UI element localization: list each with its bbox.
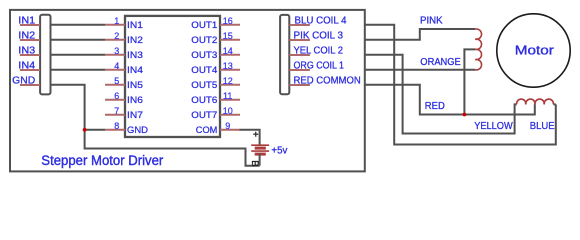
svg-text:16: 16: [223, 16, 233, 26]
IC U1 box: [125, 16, 220, 137]
battery B plates: [251, 145, 269, 154]
svg-text:14: 14: [223, 46, 233, 56]
wire IN1 connector to U1 pin1: [51, 24, 106, 26]
svg-text:OUT2: OUT2: [191, 34, 217, 45]
U1 right pins 16-9: [191, 16, 240, 135]
svg-text:OUT1: OUT1: [191, 19, 217, 30]
module box Stepper Motor Driver: [10, 10, 365, 172]
wire GND connector down to junction: [51, 85, 85, 130]
pin 1: [105, 24, 125, 26]
svg-text:13: 13: [223, 61, 233, 71]
svg-text:YELLOW: YELLOW: [474, 121, 513, 132]
svg-text:GND: GND: [127, 124, 148, 135]
pin 8: [105, 129, 125, 131]
wire IN2 connector to U1 pin2: [51, 39, 106, 41]
battery B plus sign: [253, 132, 258, 137]
svg-text:Motor: Motor: [515, 43, 555, 58]
svg-text:8: 8: [114, 121, 119, 131]
motor M1 circle: [497, 14, 570, 87]
svg-text:2: 2: [114, 31, 119, 41]
pin 2: [105, 39, 125, 41]
wire ORG to motor coil: [365, 69, 476, 71]
wire stub GND: [20, 84, 40, 86]
svg-text:ORANGE: ORANGE: [420, 57, 461, 68]
wire stub IN1: [20, 24, 40, 26]
svg-text:15: 15: [223, 31, 233, 41]
pin 14: [220, 54, 240, 56]
svg-text:IN4: IN4: [127, 64, 143, 75]
junction dot GND: [83, 128, 87, 132]
coil lead blue: [553, 103, 555, 105]
wire stub RED: [289, 84, 310, 86]
connector J1 (left header): [40, 15, 50, 95]
svg-text:Stepper Motor Driver: Stepper Motor Driver: [41, 153, 163, 169]
svg-text:IN2: IN2: [127, 34, 143, 45]
wire stub YEL: [289, 54, 310, 56]
svg-text:10: 10: [223, 106, 233, 116]
svg-text:B: B: [249, 160, 260, 166]
pin 13: [220, 69, 240, 71]
wire BLU to motor coil: [365, 25, 556, 145]
pin 7: [105, 114, 125, 116]
pin 6: [105, 99, 125, 101]
svg-text:4: 4: [114, 61, 119, 71]
connector J2 (right header): [280, 15, 289, 94]
svg-text:IN1: IN1: [127, 19, 143, 30]
wire PIK to motor coil: [365, 29, 476, 40]
svg-text:OUT6: OUT6: [191, 94, 217, 105]
wire COM to battery plus: [240, 130, 260, 145]
wire stub IN2: [20, 39, 40, 41]
svg-text:PINK: PINK: [420, 16, 443, 27]
svg-text:BLUE: BLUE: [530, 121, 555, 132]
wire IN4 connector to U1 pin4: [51, 69, 106, 71]
svg-text:OUT4: OUT4: [191, 64, 217, 75]
svg-text:3: 3: [114, 46, 119, 56]
junction dot red tap: [463, 113, 467, 117]
svg-text:7: 7: [114, 106, 119, 116]
pin 4: [105, 69, 125, 71]
wire IN3 connector to U1 pin3: [51, 54, 106, 56]
svg-text:IN3: IN3: [127, 49, 143, 60]
svg-text:RED: RED: [425, 101, 445, 112]
svg-text:6: 6: [114, 91, 119, 101]
pin 11: [220, 99, 240, 101]
wire YEL to motor coil: [365, 55, 517, 134]
svg-text:5: 5: [114, 76, 119, 86]
wire stub PIK: [289, 39, 310, 41]
svg-text:IN7: IN7: [127, 109, 143, 120]
wire red tap to vertical coil center: [464, 49, 475, 114]
wire stub IN4: [20, 69, 40, 71]
inductor L2 yellow-blue coil: [517, 99, 554, 104]
pin 15: [220, 39, 240, 41]
svg-text:COM: COM: [196, 124, 218, 135]
inductor L1 pink-orange coil: [475, 29, 481, 70]
wire stub ORG: [289, 69, 310, 71]
battery bottom lead: [259, 154, 261, 166]
wire stub BLU: [289, 24, 310, 26]
svg-text:OUT5: OUT5: [191, 79, 217, 90]
pin 16: [220, 24, 240, 26]
svg-text:1: 1: [114, 16, 119, 26]
wire GND junction down to battery minus: [85, 130, 260, 166]
svg-text:OUT7: OUT7: [191, 109, 217, 120]
svg-text:9: 9: [225, 121, 230, 131]
svg-text:12: 12: [223, 76, 233, 86]
svg-text:+5v: +5v: [271, 145, 287, 156]
svg-text:11: 11: [223, 91, 232, 101]
U1 left pins 1-8: [105, 16, 148, 135]
svg-text:IN5: IN5: [127, 79, 143, 90]
svg-text:OUT3: OUT3: [191, 49, 217, 60]
pin 9: [220, 129, 240, 131]
wire RED common to coil taps: [365, 85, 535, 115]
pin 5: [105, 84, 125, 86]
wire stub IN3: [20, 54, 40, 56]
pin 3: [105, 54, 125, 56]
wire junction to U1 pin8: [85, 129, 105, 131]
pin 10: [220, 114, 240, 116]
pin 12: [220, 84, 240, 86]
svg-text:IN6: IN6: [127, 94, 143, 105]
